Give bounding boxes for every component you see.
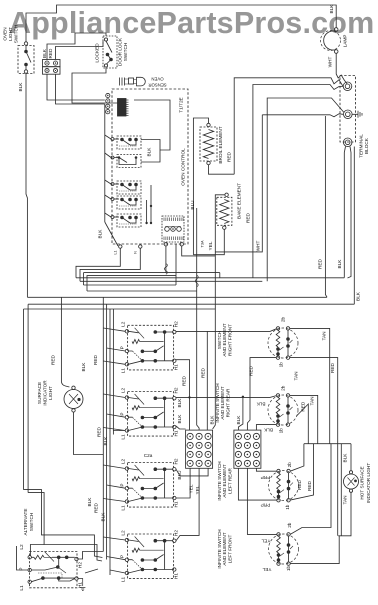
wire oven control left bus — [105, 104, 118, 246]
wire grid B col1 to E3 bottom — [238, 468, 276, 500]
wire E4 topright feed — [290, 444, 331, 535]
svg-text:1b: 1b — [286, 566, 291, 572]
label BROIL ELEMENT — [218, 126, 223, 163]
wire bus stair3 — [84, 246, 220, 285]
oven control pin comb J2 — [118, 99, 129, 117]
oven lamp DS1 — [321, 28, 341, 54]
wire top feed to lamp — [26, 5, 336, 42]
svg-text:BLK: BLK — [18, 82, 23, 92]
wire T3 pair down — [344, 147, 351, 279]
wire mid bus 291 — [87, 290, 197, 292]
label C2a — [144, 453, 153, 458]
svg-text:BAKE ELEMENT: BAKE ELEMENT — [237, 183, 242, 219]
label BLK e2a — [256, 402, 266, 407]
label RED grid feed — [201, 367, 206, 378]
wire E1 bottomright RED — [290, 358, 338, 536]
watermark AppliancePartsPros.com — [9, 6, 374, 40]
label TAN e1 — [322, 331, 327, 340]
label BLK surface light — [81, 362, 86, 372]
svg-text:BLK: BLK — [356, 291, 361, 301]
label BLU grid — [177, 470, 182, 480]
svg-text:P: P — [120, 483, 125, 486]
wire feed T1 outer — [234, 78, 343, 174]
wire grid B feed col1 — [238, 396, 244, 431]
label BLK oven light wire — [18, 82, 23, 92]
label PRP e3a — [261, 475, 271, 480]
labels E1 2b 1b — [279, 317, 286, 368]
label BLK lamp — [329, 4, 334, 14]
wire grid A feed col2 from bus — [197, 208, 199, 430]
label BLK oven control lower-left — [98, 229, 103, 239]
wire grid B feed col3 — [256, 425, 276, 431]
oven control connector J1 — [106, 93, 110, 113]
label door lock switch — [118, 37, 129, 66]
svg-text:RED: RED — [297, 479, 302, 490]
wire S4 H1 to grid edge — [176, 426, 186, 429]
svg-text:1b: 1b — [279, 428, 284, 434]
wire mid bus 285 — [84, 284, 177, 286]
svg-text:SENSOR: SENSOR — [148, 82, 166, 87]
svg-text:ALTERNATE: ALTERNATE — [23, 509, 28, 536]
door lock switch S2 — [103, 36, 117, 68]
svg-text:L1: L1 — [121, 434, 126, 440]
label BLK feed — [103, 436, 108, 446]
svg-text:YEL: YEL — [261, 539, 270, 544]
svg-text:RED: RED — [249, 365, 254, 376]
svg-text:L2: L2 — [19, 544, 24, 550]
wire lamp to terminal T1 — [336, 53, 347, 84]
wire E1 topright TAN — [290, 328, 330, 443]
svg-text:H1: H1 — [174, 573, 179, 579]
svg-text:BLK: BLK — [210, 415, 215, 425]
label alternate switch — [23, 509, 34, 536]
svg-text:BLK: BLK — [147, 147, 152, 157]
wire left feed A — [102, 297, 104, 551]
infinite switch box S5 left-rear — [125, 463, 176, 508]
labels S3 terminals — [120, 321, 179, 373]
bake element R2 — [217, 193, 232, 229]
oven control relay K4 — [111, 196, 141, 209]
svg-text:RED: RED — [93, 354, 98, 365]
wire bus stair4 — [87, 244, 176, 291]
label RED plug — [48, 48, 53, 59]
svg-text:L2: L2 — [121, 388, 126, 394]
wire far right BLK down — [353, 147, 355, 305]
label T1/T2E — [179, 97, 184, 112]
label YEL e4a — [261, 539, 270, 544]
wire door lock top — [75, 33, 106, 41]
label YEL e4b — [262, 567, 271, 572]
wire feed T2 upper — [267, 98, 344, 281]
svg-text:L2: L2 — [121, 459, 126, 465]
label BLK right bus — [337, 259, 342, 269]
wire WHT vertical lower — [215, 115, 262, 252]
label TAN e1b — [294, 371, 299, 380]
labels S6 terminals — [120, 530, 179, 582]
label RED right of S4 — [182, 375, 187, 386]
svg-text:T3A: T3A — [201, 240, 205, 247]
svg-text:BLK: BLK — [236, 415, 241, 425]
wire grid B col3 to E3 top — [256, 468, 276, 471]
label RED bottomleft — [94, 502, 99, 513]
label RED broil — [227, 151, 232, 162]
svg-text:SWITCH: SWITCH — [14, 25, 19, 44]
label OVEN CONTROL — [181, 148, 186, 186]
label hot surface indicator light — [360, 463, 372, 504]
svg-text:INDICATOR LIGHT: INDICATOR LIGHT — [366, 463, 371, 504]
terminal block TB1 — [340, 76, 356, 143]
wire door lock bottom — [72, 68, 118, 103]
svg-text:L2: L2 — [121, 530, 126, 536]
wire left bus step B — [28, 493, 102, 561]
clock terminals — [164, 243, 183, 246]
label RED e1 — [249, 365, 254, 376]
svg-text:SWITCH: SWITCH — [123, 43, 128, 62]
labels E3 2b 1b — [285, 462, 292, 510]
svg-text:2b: 2b — [287, 522, 292, 528]
svg-text:H2: H2 — [174, 458, 179, 464]
svg-text:TAN: TAN — [322, 331, 327, 340]
label PRP e3b — [261, 503, 271, 508]
svg-text:RED: RED — [246, 212, 251, 223]
wire broil top BLU — [193, 118, 208, 255]
terminal grid J3 — [186, 430, 213, 468]
svg-text:TERMINAL: TERMINAL — [359, 134, 364, 158]
label BLK gridB — [236, 415, 241, 425]
svg-text:LOCKED: LOCKED — [95, 43, 100, 63]
svg-text:AppliancePartsPros.com: AppliancePartsPros.com — [9, 6, 374, 40]
label BAKE ELEMENT — [237, 183, 242, 219]
label RED e3a — [297, 479, 302, 490]
svg-text:N: N — [134, 251, 138, 254]
wire feed T1 inner — [253, 85, 343, 278]
svg-text:RED: RED — [330, 362, 335, 373]
wire BLK oven light down to bus — [26, 73, 27, 297]
label T3A fuse — [201, 240, 205, 247]
label oven light switch — [3, 25, 19, 44]
wire taps S6 — [103, 537, 125, 573]
oven control relay K1 — [111, 136, 141, 149]
wire plug lower to oven control — [47, 74, 105, 104]
wire alt switch H1 out — [78, 579, 85, 591]
svg-text:WHT: WHT — [328, 57, 333, 68]
svg-text:YEL: YEL — [262, 567, 271, 572]
svg-text:RIGHT REAR: RIGHT REAR — [225, 388, 230, 417]
infinite switch box S3 right-front — [125, 325, 176, 370]
wire S3 H1 down to grid col1 — [176, 360, 190, 430]
wire S3 H2 to E1 — [176, 328, 278, 331]
svg-text:H1: H1 — [174, 364, 179, 370]
clock display U2 — [162, 216, 184, 242]
label BLU — [190, 200, 195, 210]
label YEL grid1 — [188, 484, 193, 493]
wire left bus step C — [24, 490, 103, 558]
svg-text:T1/T2E: T1/T2E — [179, 97, 184, 112]
label LAMP — [343, 35, 348, 48]
svg-text:2b: 2b — [287, 462, 292, 468]
wire grid A col2 to S6 H2 — [176, 468, 199, 540]
svg-text:PRP: PRP — [261, 475, 271, 480]
wire mid bus 277 — [76, 277, 344, 279]
wire E3 topright feed — [290, 444, 304, 472]
label WHT lamp — [328, 57, 333, 68]
label BLK right of S4 a — [177, 398, 182, 408]
wire bake bottom junction — [193, 229, 224, 254]
ground symbol — [352, 111, 362, 118]
alternate switch pointer — [85, 569, 98, 573]
svg-text:LIGHT: LIGHT — [8, 27, 13, 41]
svg-text:TAN: TAN — [343, 495, 348, 504]
wire E2 topright TAN — [290, 395, 318, 443]
wire feed T2 lower — [262, 114, 343, 117]
svg-text:L1: L1 — [121, 577, 126, 583]
labels alternate switch terminals — [19, 544, 83, 591]
label RED ladder — [330, 362, 335, 373]
svg-text:BLK: BLK — [87, 497, 92, 507]
svg-text:LEFT REAR: LEFT REAR — [227, 468, 232, 494]
svg-text:RED: RED — [307, 480, 312, 491]
svg-text:1b: 1b — [279, 362, 284, 368]
wire taps S3 — [103, 328, 125, 364]
svg-text:BLK: BLK — [98, 229, 103, 239]
svg-text:RED: RED — [182, 375, 187, 386]
label oven sensor — [148, 77, 166, 88]
svg-text:H1: H1 — [78, 582, 83, 588]
wire mid bus 304 — [28, 304, 354, 492]
label LOCKED — [95, 43, 100, 63]
svg-text:H2: H2 — [174, 387, 179, 393]
svg-text:BLK: BLK — [101, 512, 106, 522]
wire alt switch P feed — [17, 546, 29, 570]
wire grid B feed col2 — [247, 358, 276, 431]
svg-text:BLK: BLK — [177, 414, 182, 424]
infinite switch box S4 right-rear — [125, 392, 176, 437]
svg-text:C2a: C2a — [144, 453, 153, 458]
label RED surface light — [51, 354, 56, 365]
wire mid bus 297 — [27, 296, 327, 298]
hot surface indicator light DS3 — [344, 471, 359, 493]
label BLK plug — [42, 48, 47, 58]
wire relay commons — [147, 185, 151, 223]
svg-text:P: P — [120, 346, 125, 349]
svg-text:WHT: WHT — [256, 241, 261, 252]
svg-text:INDICATOR: INDICATOR — [43, 380, 48, 406]
label infinite switch right rear — [215, 383, 230, 422]
svg-text:BLK: BLK — [329, 4, 334, 14]
wire bus stair2 — [80, 248, 140, 281]
oven control relay K5 — [111, 214, 141, 227]
svg-text:RED: RED — [300, 401, 305, 412]
svg-text:BLOCK: BLOCK — [364, 137, 369, 154]
wire RED from T2 down — [325, 116, 327, 297]
label RED feed — [96, 426, 101, 437]
wire mid bus 309 — [24, 309, 216, 490]
label BLK e2b — [263, 428, 273, 433]
svg-text:RED: RED — [51, 354, 56, 365]
alternate switch S7 — [28, 552, 78, 588]
oven control box U1 — [112, 89, 188, 244]
terminal T3 — [343, 138, 352, 147]
svg-text:LAMP: LAMP — [343, 35, 348, 48]
wire hot light bottom — [338, 492, 351, 535]
svg-text:BLK: BLK — [103, 436, 108, 446]
svg-text:BLK: BLK — [42, 48, 47, 58]
labels E4 2b 1b — [286, 522, 292, 571]
svg-text:YEL: YEL — [208, 241, 213, 250]
svg-text:RED: RED — [318, 258, 323, 269]
label BLK far right — [356, 291, 361, 301]
oven light switch S1 — [18, 42, 34, 74]
label BLK right of S4 b — [177, 414, 182, 424]
wire left feed B — [106, 304, 108, 559]
surface indicator light DS2 — [64, 386, 83, 412]
oven control relay K2 — [111, 155, 141, 168]
oven control relay K3 — [111, 181, 141, 194]
svg-text:H2: H2 — [174, 530, 179, 536]
junction dots oven control — [145, 205, 152, 224]
wire left feed D — [112, 309, 114, 435]
wire alt switch H2 out — [78, 552, 103, 560]
svg-text:RED: RED — [48, 48, 53, 59]
svg-text:TAN: TAN — [294, 371, 299, 380]
svg-text:RIGHT FRONT: RIGHT FRONT — [227, 324, 232, 356]
svg-text:L2: L2 — [121, 321, 126, 327]
wire relay loop right — [134, 100, 170, 162]
wire grid B col2 to E4 top — [247, 468, 276, 534]
wire bake top YEL — [215, 195, 225, 309]
svg-text:BLK: BLK — [81, 362, 86, 372]
broil element R1 — [200, 123, 217, 164]
svg-text:H1: H1 — [174, 430, 179, 436]
svg-text:BLU: BLU — [190, 200, 195, 210]
oven control bottom terminals — [114, 245, 143, 255]
wire ladder bus — [304, 443, 351, 445]
burner element E4 left-front — [269, 533, 299, 566]
svg-text:BROIL ELEMENT: BROIL ELEMENT — [218, 126, 223, 163]
wire surface light feed — [61, 297, 69, 387]
label terminal block — [359, 134, 370, 158]
label RED mid2 — [93, 354, 98, 365]
svg-text:PRP: PRP — [261, 503, 271, 508]
label infinite switch left rear — [217, 461, 232, 500]
label TAN e2 — [310, 396, 315, 405]
label BLK bottomleft b — [101, 512, 106, 522]
svg-text:TAN: TAN — [310, 396, 315, 405]
wire E3 bottomright feed — [290, 444, 313, 500]
svg-text:L1: L1 — [121, 368, 126, 374]
svg-text:2b: 2b — [281, 317, 286, 323]
oven sensor — [120, 77, 146, 86]
svg-text:BLK: BLK — [337, 259, 342, 269]
burner element E2 right-rear — [268, 394, 298, 427]
wire grid A col1 to S5 H1 — [176, 468, 190, 498]
svg-text:H2: H2 — [174, 321, 179, 327]
label RED e2 — [300, 401, 305, 412]
svg-text:DOOR LOCK: DOOR LOCK — [118, 37, 123, 66]
terminal T1 — [343, 82, 352, 91]
svg-text:H1: H1 — [174, 501, 179, 507]
svg-text:P: P — [120, 412, 125, 415]
label switch and element right front — [217, 323, 232, 356]
label RED e3b — [307, 480, 312, 491]
wire plug RED up — [56, 41, 104, 60]
infinite switch box S6 left-front — [125, 534, 176, 579]
svg-text:BLK: BLK — [343, 453, 348, 463]
label infinite switch left front — [217, 529, 232, 568]
wire plug BLK up — [47, 41, 75, 60]
labels E2 2b 1b — [279, 385, 286, 433]
label RED right bus — [318, 258, 323, 269]
svg-text:OVEN: OVEN — [3, 27, 8, 40]
terminal grid J4 — [234, 430, 261, 468]
svg-text:SURFACE: SURFACE — [37, 382, 42, 404]
svg-text:L1: L1 — [121, 505, 126, 511]
wire taps S4 — [103, 394, 125, 431]
svg-text:BLK: BLK — [263, 428, 273, 433]
svg-text:RED: RED — [201, 367, 206, 378]
wire clock terminal right — [182, 246, 216, 256]
connector plug P1 — [43, 60, 61, 75]
svg-text:LEFT FRONT: LEFT FRONT — [227, 534, 232, 563]
svg-text:L1: L1 — [114, 251, 118, 255]
wire grid A feed col3 — [207, 309, 215, 430]
svg-text:2b: 2b — [281, 385, 286, 391]
wire broil bottom — [209, 165, 235, 175]
label BLK relay — [147, 147, 152, 157]
labels S4 terminals — [120, 387, 179, 439]
svg-text:YEL: YEL — [188, 484, 193, 493]
svg-text:LIGHT: LIGHT — [48, 386, 53, 400]
wire bus stair1 — [76, 248, 120, 277]
svg-text:HOT SURFACE: HOT SURFACE — [360, 466, 365, 499]
svg-text:RED: RED — [94, 502, 99, 513]
label YEL bake — [208, 241, 213, 250]
wire stub 341 — [340, 444, 342, 536]
wire E4 bottomright — [290, 536, 339, 564]
label RED bake — [246, 212, 251, 223]
wire S4 H2 to E2 — [176, 396, 276, 399]
svg-text:BLK: BLK — [256, 402, 266, 407]
svg-text:P: P — [120, 555, 125, 558]
svg-text:SWITCH: SWITCH — [29, 513, 34, 532]
svg-text:1b: 1b — [285, 504, 290, 510]
svg-text:H2: H2 — [78, 562, 83, 568]
terminal T2 — [344, 110, 353, 119]
label BLK bottomleft a — [87, 497, 92, 507]
burner element E1 right-front — [268, 327, 298, 360]
wire grid A col3 to S5 H2 — [176, 468, 208, 476]
wire alt switch L2 feed — [30, 545, 44, 556]
label BLK hot light — [343, 453, 348, 463]
svg-text:RED: RED — [96, 426, 101, 437]
svg-text:OVEN: OVEN — [151, 77, 163, 82]
svg-text:BLK: BLK — [177, 398, 182, 408]
label YEL grid2 — [195, 485, 200, 494]
label surface indicator light — [37, 380, 53, 406]
wire left feed C — [109, 309, 111, 575]
svg-text:L1: L1 — [19, 585, 24, 591]
wire crossing hops — [164, 264, 198, 288]
label WHT bake — [256, 241, 261, 252]
label TAN hot light — [343, 495, 348, 504]
wire mid bus 281 — [80, 280, 262, 282]
wire surface light down — [74, 412, 104, 454]
wire taps S5 — [103, 465, 125, 502]
labels S5 terminals — [120, 458, 179, 510]
wire hot light top — [350, 444, 352, 471]
label BLK grid feed — [210, 415, 215, 425]
burner element E3 left-rear — [269, 469, 299, 502]
